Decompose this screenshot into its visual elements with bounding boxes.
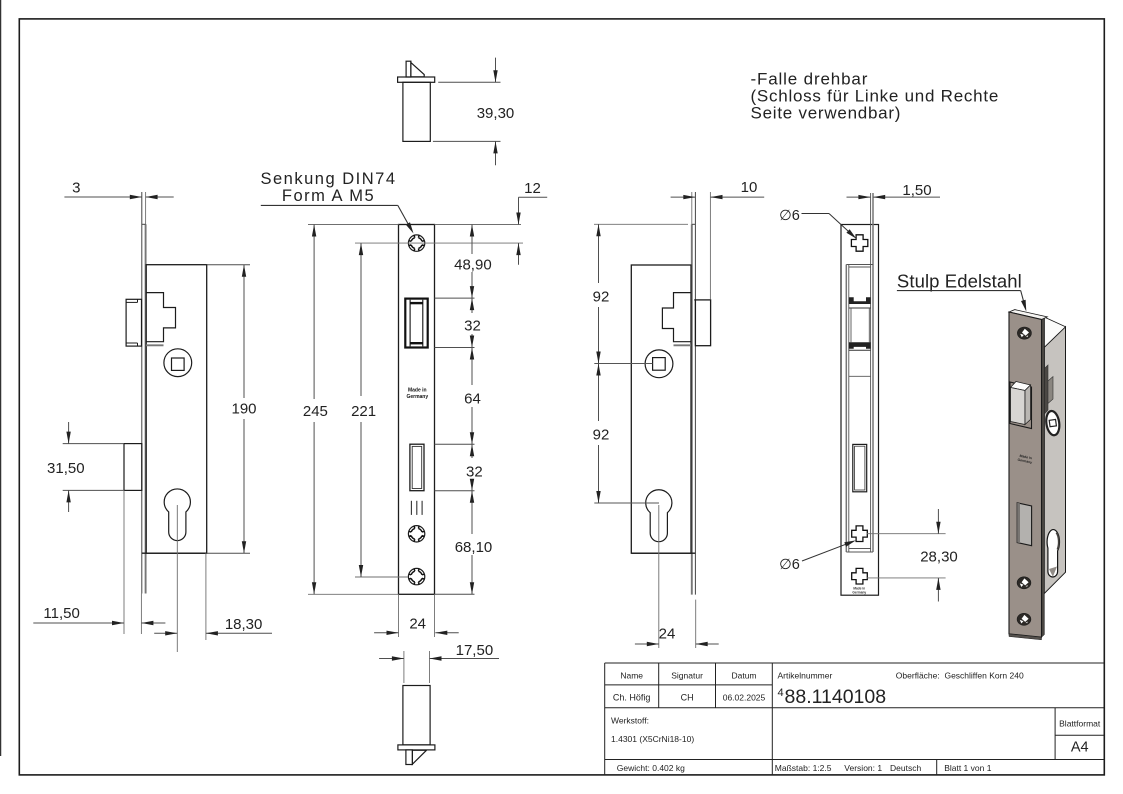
svg-text:4: 4 [778,687,784,699]
svg-text:24: 24 [659,626,676,643]
svg-text:Datum: Datum [731,671,756,681]
svg-text:Signatur: Signatur [671,671,703,681]
svg-text:Blatt 1 von 1: Blatt 1 von 1 [944,763,992,773]
latch bevel triangle [411,63,424,77]
screw hole cross middle [852,526,868,542]
dimension 92 upper [593,224,688,363]
svg-text:Senkung DIN74: Senkung DIN74 [261,170,397,188]
svg-text:Germany: Germany [406,394,428,400]
svg-text:Maßstab: 1:2.5: Maßstab: 1:2.5 [775,763,832,773]
front screw hole top [1017,327,1031,339]
svg-text:24: 24 [409,616,426,633]
svg-text:68,10: 68,10 [455,539,493,556]
dimension 3 [64,180,173,200]
dimension 39,30 [433,58,514,166]
cylinder housing box [124,444,142,491]
dimension 17,50 [379,642,499,683]
follower hub [164,349,192,377]
latch cross section (right view) [662,293,691,342]
faceplate edge (right view) [691,224,693,594]
view: lock right side view [631,192,710,595]
title block [605,663,1105,775]
label diameter 6 top [779,208,856,239]
extension lines central [308,225,523,595]
svg-text:92: 92 [593,288,610,305]
latch head outside plate (right view) [695,300,710,346]
svg-text:Form A M5: Form A M5 [282,187,375,205]
svg-text:32: 32 [464,318,481,335]
latch cross section inside case [146,293,176,342]
dimension 221 [351,243,376,577]
latch bevel triangle bottom [412,750,426,764]
svg-text:64: 64 [464,391,481,408]
svg-text:245: 245 [303,403,328,420]
dimension 32 upper [464,298,481,347]
latch 3D side face [1025,385,1031,425]
case side face [1044,327,1065,594]
svg-text:1.4301 (X5CrNi18-10): 1.4301 (X5CrNi18-10) [611,734,694,744]
bolt opening [410,444,424,491]
page edge left [0,0,2,756]
latch 3D top face [1011,382,1031,391]
dimension 92 lower [593,364,659,504]
dimension 18,30 [154,553,272,640]
svg-text:Artikelnummer: Artikelnummer [778,671,833,681]
faceplate edge (left view) [141,192,143,594]
latch guide channel upper [849,297,871,304]
keyhole 3D [1047,530,1059,577]
svg-text:31,50: 31,50 [47,460,85,477]
front screw hole middle [1017,577,1031,589]
svg-text:39,30: 39,30 [477,105,515,122]
plate bottom edge [1009,634,1042,640]
dimension 11,50 [33,490,165,634]
euro profile keyhole (left view) [164,489,190,541]
svg-text:1,50: 1,50 [902,182,931,199]
svg-text:Version: 1: Version: 1 [844,763,882,773]
euro profile keyhole (right view) [646,490,672,542]
dimension 10 [671,179,765,300]
svg-text:CH: CH [681,693,694,703]
dimension 12 [516,180,547,265]
svg-text:∅6: ∅6 [779,208,800,224]
view: latch bolt bottom view [398,686,435,765]
latch head outside plate [126,299,141,346]
latch 3D front face [1011,388,1026,425]
svg-text:48,90: 48,90 [454,256,492,273]
svg-text:∅6: ∅6 [779,557,800,573]
dimension 245 [303,225,328,595]
hash marks [410,501,412,515]
svg-text:221: 221 [351,403,376,420]
screw bottom [408,568,424,584]
dimension 32 lower [466,444,483,491]
case top face [1044,317,1065,347]
dimension 48,90 [454,225,492,299]
dimension 64 [464,348,481,445]
svg-text:A4: A4 [1071,740,1089,756]
svg-text:11,50: 11,50 [43,605,79,622]
latch slot cut in side [1044,365,1048,414]
latch flange [398,77,435,82]
bolt window (view 5) [853,444,867,491]
svg-text:Blattformat: Blattformat [1059,719,1101,729]
view: faceplate front view [399,225,435,595]
screw middle [408,526,424,542]
svg-text:Germany: Germany [852,590,866,594]
svg-text:Seite verwendbar): Seite verwendbar) [751,103,902,122]
plate top edge face [1009,310,1047,320]
follower hub (right view) [645,350,673,378]
screw hole cross bottom [852,568,868,584]
latch bolt body [403,82,430,141]
stulp front face [1009,312,1042,637]
svg-text:Ch. Höfig: Ch. Höfig [613,693,651,703]
plate right edge face [1042,317,1045,637]
lock case body (right view) [631,265,691,553]
case edge lines left [845,265,847,553]
dimension 31,50 [47,422,124,512]
faceplate outline [399,225,435,595]
view: faceplate assembly front view [841,193,879,595]
svg-text:18,30: 18,30 [225,616,263,633]
case edge lines right / 1.5 plate edge [870,193,872,552]
svg-text:28,30: 28,30 [920,549,958,566]
svg-text:Oberfläche: Geschliffen Korn: Oberfläche: Geschliffen Korn 240 [896,671,1024,681]
view: latch bolt top view [398,61,435,141]
dimension 1,50 [847,182,941,199]
screw hole cross top [851,235,867,251]
dimension 28,30 [867,509,958,602]
latch window 3D [1010,382,1032,429]
dimension 190 [207,265,257,554]
svg-text:88.1140108: 88.1140108 [785,686,887,708]
lock case body (left view) [146,265,207,554]
case window top/bottom [846,264,873,266]
svg-text:06.02.2025: 06.02.2025 [723,693,766,703]
svg-text:Stulp Edelstahl: Stulp Edelstahl [897,271,1022,292]
svg-text:12: 12 [524,180,541,197]
svg-text:17,50: 17,50 [456,642,494,659]
svg-text:3: 3 [72,180,80,197]
view: lock left side view [124,192,207,652]
3D view: stulp assembly [1009,310,1066,640]
svg-text:Werkstoff:: Werkstoff: [611,716,649,726]
follower 3D [1045,410,1061,436]
front screw hole bottom [1017,613,1031,625]
latch tip stem bottom [406,750,413,765]
svg-text:Name: Name [620,671,643,681]
dimension 68,10 [455,491,493,595]
bolt window 3D [1017,503,1031,546]
dimension 24 right view [635,505,719,648]
countersunk screw top [408,235,424,251]
svg-text:Gewicht: 0.402 kg: Gewicht: 0.402 kg [617,763,685,773]
svg-text:Deutsch: Deutsch [890,763,921,773]
svg-text:Made in: Made in [408,388,427,394]
latch block sides [850,308,852,342]
label diameter 6 bottom [779,540,856,573]
svg-text:190: 190 [231,401,256,418]
dimension 24 central [374,594,459,637]
latch body bottom view [403,686,430,745]
latch opening [405,299,427,348]
latch flange bottom view [398,745,435,750]
stulp plate outline [841,225,879,596]
svg-text:32: 32 [466,464,483,481]
label Stulp Edelstahl [897,271,1026,312]
svg-text:10: 10 [741,179,758,196]
svg-text:92: 92 [593,426,610,443]
latch guide channel lower [849,342,871,349]
label Senkung DIN74 [261,170,414,234]
made in germany 3D [1017,454,1033,465]
note: Falle drehbar [751,70,1000,123]
latch tip stem [406,61,411,77]
